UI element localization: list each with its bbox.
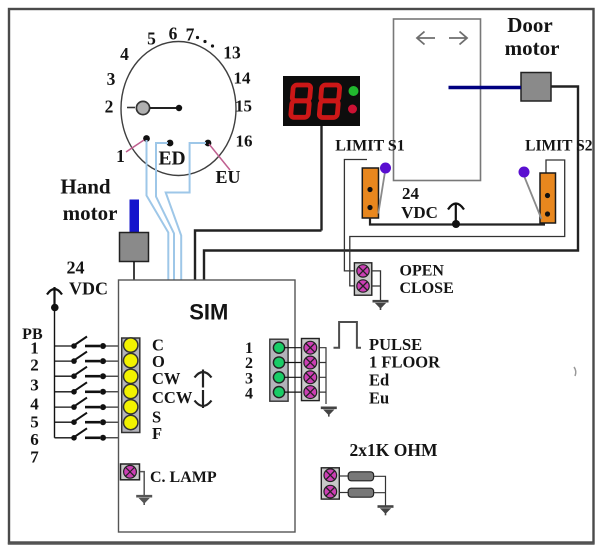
- wire S1 bottom to 24V bus to S2 bottom: [370, 218, 545, 225]
- pushbutton switch PB4: [55, 382, 119, 395]
- limit switch S1 body: [362, 168, 378, 218]
- SW1 contact pin 1: [143, 135, 150, 142]
- DS1 digit 8 (left): [291, 85, 311, 117]
- wires J2 to ground: [319, 348, 326, 404]
- smudge artifact: [574, 367, 576, 376]
- SIM controller U1 box: [119, 280, 296, 532]
- svg-text:7: 7: [186, 25, 195, 45]
- wire J4 pin1 to R1: [339, 475, 348, 477]
- svg-text:CLOSE: CLOSE: [400, 280, 454, 297]
- SW1 ellipsis dots between 7 and 13: [196, 36, 214, 48]
- svg-text:3: 3: [107, 69, 116, 89]
- J2 pin 3: [304, 371, 317, 384]
- hand motor M1 body: [120, 233, 149, 262]
- wire S2 arm to CLOSE pin: [350, 160, 565, 286]
- J1 pin 2: [357, 280, 369, 292]
- svg-text:14: 14: [234, 69, 252, 88]
- up arrow (CW): [195, 370, 212, 388]
- TB1 pin O: [124, 353, 138, 367]
- wire S1 arm to OPEN pin: [344, 160, 367, 271]
- svg-text:SIM: SIM: [189, 300, 228, 325]
- svg-text:Door: Door: [507, 13, 553, 37]
- svg-text:VDC: VDC: [401, 203, 438, 222]
- wire M2 to SIM bus: [204, 87, 578, 281]
- junction PB bus: [51, 304, 59, 312]
- ground below J3: [136, 496, 152, 505]
- 24 VDC label (left): [67, 258, 109, 299]
- ground below J1: [373, 301, 389, 310]
- svg-text:4: 4: [120, 44, 129, 64]
- PB row labels 1-7: [30, 339, 39, 467]
- J4 pin 2: [324, 485, 337, 498]
- hand motor label: [60, 175, 117, 226]
- DS1 red LED: [348, 105, 357, 114]
- S2 contact dots: [545, 193, 550, 198]
- svg-text:1: 1: [116, 146, 125, 166]
- svg-text:2: 2: [105, 97, 114, 117]
- svg-text:15: 15: [235, 97, 252, 116]
- svg-text:2x1K OHM: 2x1K OHM: [350, 440, 438, 460]
- 24 VDC label (right): [401, 184, 438, 222]
- door motor label: [505, 13, 560, 60]
- pushbutton switch PB6: [55, 413, 119, 426]
- TB2 pin 3: [273, 372, 284, 383]
- resistor R1 1K: [348, 472, 373, 481]
- wire resistors to ground: [374, 476, 386, 505]
- SW1 contact pin EU: [205, 140, 212, 147]
- svg-text:6: 6: [169, 24, 178, 44]
- S1 roller ball: [380, 163, 391, 174]
- svg-text:13: 13: [223, 43, 241, 63]
- wire DS1 to bus: [320, 126, 322, 231]
- svg-text:1 FLOOR: 1 FLOOR: [369, 353, 441, 372]
- limit switch S2 body: [540, 173, 556, 223]
- svg-text:LIMIT S2: LIMIT S2: [525, 138, 593, 155]
- TB1 pin C: [124, 338, 138, 352]
- TB1 pin F: [124, 415, 138, 429]
- svg-text:LIMIT S1: LIMIT S1: [335, 138, 405, 155]
- ground below J2: [321, 408, 337, 417]
- pushbutton switch PB7: [55, 428, 119, 441]
- wires TB2 to J2: [284, 348, 305, 392]
- J4 pin 1: [324, 469, 337, 482]
- svg-text:2: 2: [245, 355, 253, 372]
- resistor R2 1K: [348, 488, 373, 497]
- door close arrow (right): [449, 32, 467, 45]
- svg-text:4: 4: [30, 395, 39, 414]
- wire SW1 pin1 to SIM (blue): [147, 140, 169, 280]
- svg-text:CCW: CCW: [152, 388, 193, 407]
- wire SIM to DS1 bus: [195, 231, 322, 281]
- TB2 pin 2: [273, 357, 284, 368]
- pushbutton switch PB5: [55, 398, 119, 411]
- door open arrow (left): [417, 32, 435, 45]
- 24VDC arrow (left): [47, 287, 62, 306]
- svg-text:C. LAMP: C. LAMP: [150, 469, 217, 486]
- svg-text:PULSE: PULSE: [369, 335, 422, 354]
- svg-text:motor: motor: [505, 36, 560, 60]
- rotary selector SW1 dial: [121, 42, 236, 176]
- wire SW1 EU to SIM (blue): [166, 143, 206, 280]
- DS1 green LED: [349, 86, 359, 96]
- wire J3 to ground: [140, 472, 145, 495]
- svg-text:6: 6: [30, 430, 39, 449]
- svg-text:2: 2: [30, 356, 39, 375]
- J2 pin 2: [304, 356, 317, 369]
- svg-text:5: 5: [147, 29, 156, 49]
- TB2 pins: [273, 342, 284, 398]
- TB1 pin labels: [152, 336, 193, 444]
- PB bus wire: [54, 307, 56, 438]
- motor shaft wire (navy): [449, 86, 522, 89]
- svg-text:24: 24: [402, 184, 420, 203]
- svg-text:motor: motor: [63, 201, 118, 225]
- svg-text:7: 7: [30, 448, 39, 467]
- pulse waveform symbol: [334, 322, 362, 348]
- terminal block TB2 (green): [270, 339, 288, 401]
- door motor M2 body: [521, 73, 551, 102]
- svg-text:VDC: VDC: [69, 279, 108, 299]
- DS1 digit 8 (right): [319, 85, 340, 118]
- 7-segment display DS1 body: [283, 76, 360, 126]
- TB1 pin S: [124, 400, 138, 414]
- connector J4 block: [321, 468, 339, 499]
- TB1 pin CCW: [124, 384, 138, 398]
- wire M1 to SIM: [133, 262, 135, 281]
- J2 pins: [304, 341, 317, 398]
- terminal block TB1 (yellow): [122, 338, 140, 433]
- svg-text:Hand: Hand: [60, 175, 111, 199]
- wire TB2-2 to J2-2: [284, 362, 305, 364]
- wire J4 pin2 to R2: [339, 492, 348, 494]
- svg-text:4: 4: [245, 386, 253, 403]
- wire TB2-1 to J2-1: [284, 347, 305, 349]
- svg-text:CW: CW: [152, 369, 181, 388]
- S1 lever: [378, 173, 385, 214]
- SW1 wiper arm: [150, 105, 182, 111]
- svg-text:5: 5: [30, 413, 39, 432]
- connector J1 OPEN/CLOSE block: [354, 263, 371, 295]
- S1 contact dots: [367, 187, 372, 192]
- 24VDC arrow (right): [448, 203, 464, 225]
- svg-text:F: F: [152, 424, 162, 443]
- connector J2 block: [302, 339, 320, 401]
- wire SW1 ED to SIM (blue): [156, 143, 174, 280]
- svg-text:EU: EU: [215, 167, 240, 187]
- TB1 pins: [124, 338, 138, 430]
- svg-text:24: 24: [67, 258, 85, 278]
- leader line to label EU: [209, 144, 230, 170]
- OPEN CLOSE labels: [400, 263, 454, 298]
- wire TB2-3 to J2-3: [284, 376, 305, 378]
- svg-text:16: 16: [236, 132, 253, 151]
- pushbutton switches PB1-PB7: [55, 337, 119, 441]
- down arrow (CCW): [195, 390, 212, 408]
- J3 pin: [124, 465, 137, 478]
- S2 lever: [525, 177, 542, 219]
- pushbutton switch PB1: [55, 337, 119, 350]
- J1 pin 1: [357, 265, 369, 277]
- TB2 pin 1: [273, 342, 284, 353]
- TB2 labels 1-4: [245, 340, 253, 403]
- hand motor M1 shaft (blue): [130, 200, 140, 233]
- SW1 position labels: [105, 24, 253, 167]
- junction 24VDC: [452, 220, 460, 228]
- leader line to label 1: [126, 140, 144, 152]
- SW1 knob: [127, 101, 150, 114]
- svg-text:Ed: Ed: [369, 371, 389, 390]
- J2 pin 1: [304, 341, 317, 354]
- J4 pins: [324, 469, 337, 498]
- wire J1 to ground: [372, 271, 381, 300]
- door box: [394, 19, 481, 181]
- pushbutton switch PB2: [55, 352, 119, 365]
- S2 roller ball: [519, 167, 530, 178]
- svg-text:3: 3: [30, 376, 39, 395]
- svg-text:Eu: Eu: [369, 389, 389, 408]
- signal labels: [369, 335, 441, 408]
- connector J3 C.LAMP: [121, 464, 140, 480]
- TB1 pin CW: [124, 369, 138, 383]
- wire TB2-4 to J2-4: [284, 391, 305, 393]
- pushbutton switch PB3: [55, 367, 119, 380]
- ground below resistors: [378, 507, 394, 516]
- SW1 contact pin ED: [167, 140, 174, 147]
- TB2 pin 4: [273, 387, 284, 398]
- svg-text:ED: ED: [158, 149, 185, 170]
- svg-text:OPEN: OPEN: [400, 263, 445, 280]
- J2 pin 4: [304, 386, 317, 399]
